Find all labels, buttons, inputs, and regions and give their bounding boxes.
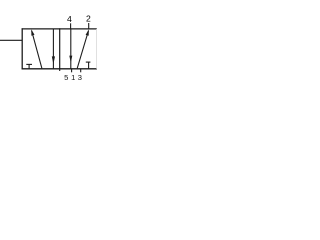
svg-text:4: 4 [67,14,72,24]
port 3 tick [80,69,82,73]
svg-text:5: 5 [64,73,68,82]
left box blocked port T stem [28,64,30,68]
right box blocked port T bar [86,61,91,63]
left box blocked port T bar [26,63,32,65]
valve body bottom edge [22,68,97,70]
right box vertical down arrow 4-5 [70,29,72,69]
left box diagonal arrowhead [31,29,34,35]
valve body divider [59,28,61,69]
right box blocked port T stem [88,62,90,69]
right box vertical arrowhead [69,56,72,63]
svg-text:2: 2 [86,14,91,24]
left box vertical arrowhead [52,56,55,64]
port 2 tick [88,23,90,29]
valve body top edge [22,28,97,30]
valve body right edge (faint) [95,29,97,69]
pilot line wire [0,39,22,41]
valve body left edge [21,28,23,69]
left box vertical down arrow 2-3 [52,29,54,69]
right box diagonal arrowhead [86,29,89,35]
port 1 tick [71,69,73,73]
port 4 tick [70,23,72,29]
port 5 tick [59,69,61,71]
right box diagonal arrow 1-2 [77,31,88,69]
svg-text:3: 3 [78,73,82,82]
svg-text:1: 1 [71,73,75,82]
left box diagonal arrow 1-4 [32,31,42,69]
